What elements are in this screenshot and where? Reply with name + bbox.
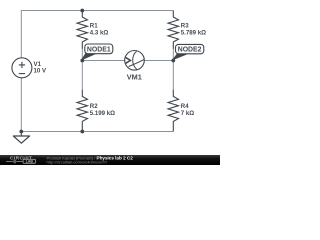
wire: mid left (node A to VM1) — [82, 60, 125, 62]
resistor R3 — [168, 11, 178, 49]
wire: ground stub — [20, 132, 22, 137]
svg-text:LAB: LAB — [26, 160, 34, 164]
svg-text:10 V: 10 V — [34, 68, 47, 75]
svg-text:7 kΩ: 7 kΩ — [181, 110, 194, 117]
voltage source V1 — [12, 58, 32, 78]
svg-text:5.789 kΩ: 5.789 kΩ — [181, 29, 206, 36]
junction dot ground/bottom rail — [19, 130, 23, 134]
voltmeter VM1 — [125, 51, 145, 71]
resistor R4 — [168, 90, 178, 132]
node NODE2 label bubble — [172, 54, 188, 61]
resistor R1 — [77, 11, 87, 49]
node B junction dot — [171, 59, 175, 63]
wire: node A to R2 top — [81, 61, 83, 91]
node A junction dot — [80, 59, 84, 63]
ground — [13, 136, 29, 143]
wire: node B to R4 top — [172, 61, 174, 91]
svg-text:NODE2: NODE2 — [178, 47, 202, 54]
wire: R3 bottom to node B — [172, 49, 174, 61]
svg-text:VM1: VM1 — [127, 73, 142, 82]
wire: bottom rail — [21, 131, 173, 133]
svg-text:4.3 kΩ: 4.3 kΩ — [90, 29, 109, 36]
svg-text:NODE1: NODE1 — [87, 46, 111, 53]
junction dot R2/bottom rail — [80, 130, 84, 134]
wire: left vertical bottom (V1 to bottom rail) — [20, 78, 22, 132]
node NODE1 label bubble — [81, 53, 97, 61]
wire: left vertical top (V1 to top rail) — [20, 10, 22, 58]
svg-text:5.199 kΩ: 5.199 kΩ — [90, 110, 115, 117]
svg-text:http://circuitlab.com/c/c4dmnz: http://circuitlab.com/c/c4dmnze97/ — [47, 159, 108, 164]
wire: top rail — [21, 10, 173, 12]
wire: mid right (VM1 to node B) — [144, 60, 173, 62]
resistor R2 — [77, 90, 87, 132]
wire: R1 bottom to node A — [81, 49, 83, 61]
junction dot top (R1/top rail) — [80, 9, 84, 13]
